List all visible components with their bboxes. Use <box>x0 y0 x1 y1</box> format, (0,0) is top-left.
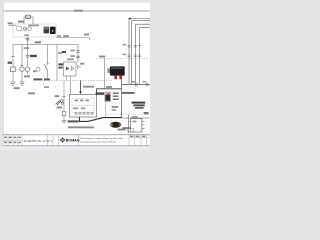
X2 inner label <box>132 121 136 123</box>
label row right <box>122 92 135 94</box>
connector ticks on vertical 3 <box>138 45 141 56</box>
photo icon relay K2 <box>50 27 56 34</box>
connector pair 1 on F <box>76 51 80 53</box>
pin squares bottom of S3 <box>75 112 77 114</box>
supply net label <box>8 22 13 24</box>
tick labels column <box>123 44 127 46</box>
dashed contact field inside S3 <box>72 99 94 114</box>
heavy elbow from box top right <box>96 89 98 95</box>
bus right end drop F <box>77 45 79 63</box>
supply wire into box from left <box>9 25 17 27</box>
resistor R1 under cluster <box>62 112 66 116</box>
key cluster label <box>55 95 60 97</box>
key cluster circles <box>61 100 64 103</box>
nested feed wire 2 <box>131 21 150 85</box>
wire drop G <box>104 58 106 89</box>
diode symbols inside V1 <box>66 67 69 71</box>
ignition photo switch S4 frame <box>104 92 111 103</box>
logo diamond <box>60 137 65 143</box>
ground GND3 <box>62 121 66 122</box>
ignition photo red dot <box>107 93 109 95</box>
callout link vertical <box>105 102 107 117</box>
connector pair 2 on F <box>76 56 80 58</box>
label near E <box>58 52 62 54</box>
main bus wire <box>13 44 78 46</box>
dashed callout border horizontal <box>106 114 144 116</box>
wire drop B <box>21 45 23 67</box>
labels left of V1 <box>58 63 63 65</box>
wire drop to connector <box>128 115 130 134</box>
svg-text:Versorgungsspannung, Startscha: Versorgungsspannung, Startschaltung <box>80 140 117 143</box>
right cell texts <box>130 136 133 138</box>
wire drop A <box>12 45 14 68</box>
bus label <box>35 41 41 43</box>
meter M1 circle <box>36 67 40 71</box>
connector X1 below box <box>27 37 29 45</box>
photo micro-switch S2 bracket <box>107 68 111 73</box>
nested feed wire 3 <box>135 24 150 84</box>
revision grid mid rule <box>3 139 22 141</box>
tiny labels above ticks <box>132 81 135 83</box>
nested feed wire 4 <box>139 28 150 85</box>
note text small left <box>112 106 119 108</box>
white schematic sheet <box>3 3 150 146</box>
X2 pins right <box>142 121 145 128</box>
dark note block right <box>132 102 146 104</box>
revision cell texts row1 <box>4 137 7 139</box>
dark wire label right of C <box>30 55 37 57</box>
svg-text:BOMAG: BOMAG <box>66 139 80 143</box>
legend small box <box>128 128 134 132</box>
connector box X2 <box>131 119 142 132</box>
stub into connector box <box>129 121 131 123</box>
sub box inside battery unit <box>17 26 22 30</box>
divider cells mid <box>48 135 79 146</box>
X2 top label <box>132 116 138 118</box>
connector double tick on C <box>26 55 29 57</box>
legend box label above title block <box>118 129 126 131</box>
ignition feed arrow wire <box>80 81 82 92</box>
right cells mid rule <box>129 137 150 139</box>
tiny labels inside dashed box <box>28 25 39 27</box>
label right of F2 <box>122 127 130 129</box>
svg-text:Wiring diagram, supply voltage: Wiring diagram, supply voltage, ignition… <box>80 137 125 140</box>
dashed enclosure box battery unit <box>13 24 56 37</box>
wire drop into cluster <box>63 81 65 111</box>
header text on frame <box>74 10 83 12</box>
fuse F1 body <box>26 15 31 18</box>
labels left of F <box>70 50 75 52</box>
ignition lock box S3 <box>70 95 97 118</box>
connector X1 label <box>24 34 29 36</box>
ignition feed arrowhead <box>79 91 82 94</box>
junction labels below bus <box>24 47 30 49</box>
photo fuse holder F2 <box>110 122 121 128</box>
label on A <box>8 62 12 64</box>
svg-text:KC-ENTS-TG -4 Tor 4: KC-ENTS-TG -4 Tor 4 <box>24 139 53 143</box>
terminal marks row top inside S3 <box>75 100 79 102</box>
fuse F1 top-left loop wire <box>24 17 33 24</box>
label above heavy wire <box>106 86 112 88</box>
title block bottom rule / page edge <box>3 145 150 147</box>
connector ticks pair 2 <box>146 83 148 87</box>
component box E1 <box>11 67 16 72</box>
wire from S2 down <box>121 79 123 118</box>
connector ticks on vertical 1 <box>128 45 131 56</box>
connector ticks pair 1 on that wire <box>135 83 137 87</box>
sheet left edge line <box>2 3 4 146</box>
dashed line right section <box>96 58 150 60</box>
stub + label under C <box>27 71 29 74</box>
label above V1 <box>67 58 74 60</box>
page background margin <box>0 0 150 150</box>
area below page <box>0 146 150 150</box>
callout end label <box>144 112 149 114</box>
wire from box right edge <box>56 36 90 38</box>
net labels on that wire <box>57 35 61 37</box>
heavy battery cable run <box>80 117 122 121</box>
photo icon relay K1 <box>44 27 49 34</box>
photo micro-switch S2 body <box>110 66 125 75</box>
wire drop E <box>56 45 58 81</box>
fuse F1 label <box>18 21 24 23</box>
generator G2 circle <box>28 27 32 31</box>
ground GND1 <box>10 82 15 85</box>
lamp H1 circle <box>20 67 24 71</box>
photo micro-switch S2 red terminals <box>114 75 117 79</box>
node label <box>99 56 105 58</box>
wire colour labels under S1 <box>33 78 42 80</box>
contact dashes inside S3 <box>74 105 94 107</box>
revision grid verticals <box>8 135 22 146</box>
wires below V1 <box>67 76 71 95</box>
label right of arrow <box>83 86 94 88</box>
heavy feed wire to S2 <box>97 88 122 90</box>
title block top rule <box>3 134 150 136</box>
wire drop C <box>27 45 29 67</box>
connector tick on A <box>11 55 14 57</box>
revision cell texts row2 <box>4 142 7 144</box>
wire along bottom right <box>122 117 150 119</box>
right cells verticals <box>129 135 147 146</box>
diode module box V1 <box>64 62 77 76</box>
nested feed wire 1 top right <box>129 19 150 85</box>
dark dash label <box>62 51 66 53</box>
ignition photo dark face <box>105 95 110 101</box>
cable note text row <box>68 126 94 128</box>
label under harness line <box>44 86 49 88</box>
wire S2 to right edge <box>122 84 150 86</box>
ground GND1 label <box>14 87 20 89</box>
connector ticks on vertical 2 <box>134 45 137 56</box>
wire drop D with switch S1 <box>47 45 49 64</box>
battery G1 plates <box>24 26 27 31</box>
ground GND2 <box>19 82 24 85</box>
connector tick on B <box>20 64 23 66</box>
sheet top frame border <box>3 10 150 12</box>
net label under lamps <box>28 92 35 94</box>
dashed harness line horizontal <box>44 80 113 82</box>
lamp H2 circle <box>25 67 29 71</box>
key cluster left of ignition lock <box>56 100 61 105</box>
diode symbol right of V1 <box>78 65 81 69</box>
dark label under heavy wire left <box>96 92 105 94</box>
wire end stub <box>89 37 91 40</box>
dashed harness corner <box>43 81 45 86</box>
labels right of S4 <box>113 92 119 94</box>
cable label text <box>68 120 79 122</box>
junction dot wire 1 <box>129 18 132 20</box>
